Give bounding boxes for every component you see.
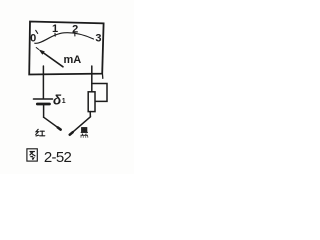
svg-text:3: 3 <box>95 32 101 44</box>
svg-text:1: 1 <box>62 98 66 105</box>
svg-text:1: 1 <box>52 23 58 35</box>
svg-text:2-52: 2-52 <box>44 149 72 166</box>
svg-text:δ: δ <box>53 92 62 107</box>
svg-text:0: 0 <box>30 33 36 45</box>
svg-text:2: 2 <box>72 23 78 35</box>
svg-text:mA: mA <box>64 54 82 66</box>
